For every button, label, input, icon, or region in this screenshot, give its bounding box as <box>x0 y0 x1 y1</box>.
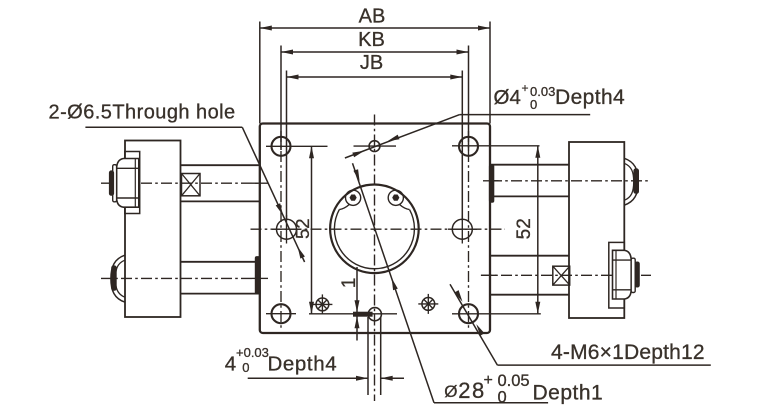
left bottom bolt head (behind block) <box>111 255 125 302</box>
plate body <box>260 124 490 334</box>
right hole column centerline <box>468 131 470 329</box>
left bottom bolt tip <box>112 266 117 290</box>
left bottom axis centerline <box>101 277 260 279</box>
svg-text:Ø4: Ø4 <box>494 86 521 109</box>
bottom row crosshair right with 52 tick <box>452 313 541 315</box>
left rod key block <box>182 174 201 196</box>
dimension AB extension lines <box>259 22 261 124</box>
dimension 4 line <box>248 377 368 379</box>
svg-text:4: 4 <box>225 353 236 376</box>
side through hole right <box>452 219 472 239</box>
svg-text:28: 28 <box>458 378 485 403</box>
dimension KB line <box>281 51 469 53</box>
dimension JB extension lines <box>286 71 288 221</box>
M6 port hole left <box>316 298 329 311</box>
central bore circle <box>330 185 419 274</box>
bottom row crosshair left <box>266 313 296 315</box>
left top piston rod <box>181 164 260 166</box>
right top axis centerline <box>491 180 648 182</box>
slot extension lines <box>367 317 369 395</box>
left top bolt hex nut <box>117 159 139 208</box>
svg-text:Depth4: Depth4 <box>268 353 338 376</box>
vertical centerline <box>374 115 376 402</box>
center row crosshair left hole <box>272 228 301 230</box>
dimension KB extension lines <box>280 46 282 151</box>
dimension JB line <box>287 76 463 78</box>
left top bolt washer <box>113 165 117 202</box>
right bottom piston rod <box>490 255 569 257</box>
horizontal centerline <box>251 228 506 230</box>
svg-text:0: 0 <box>242 360 249 375</box>
dimension AB line <box>260 27 490 29</box>
svg-text:KB: KB <box>358 29 385 51</box>
retaining ring lug left <box>346 190 361 205</box>
right bottom bolt washer <box>631 258 635 292</box>
retaining ring lug right <box>388 190 403 205</box>
leader Ø28 diagonal <box>353 163 435 402</box>
svg-text:Ø: Ø <box>444 382 457 401</box>
right top piston rod <box>490 164 569 166</box>
leader Ø4 underline <box>460 114 591 116</box>
retaining ring inner arc <box>334 210 414 269</box>
leader Ø4 diagonal <box>345 115 460 158</box>
svg-text:JB: JB <box>360 52 383 74</box>
left top axis centerline <box>101 182 260 184</box>
right top bolt head (behind block) <box>624 158 638 205</box>
ring lug hole left <box>350 195 357 201</box>
left bolt pocket strip <box>125 152 140 214</box>
leader Ø28 underline <box>434 402 548 404</box>
M6 port hole right <box>422 298 435 311</box>
svg-text:0: 0 <box>530 97 537 112</box>
bottom row line to slot <box>309 313 397 315</box>
svg-text:0.05: 0.05 <box>498 372 530 390</box>
left bottom rod end seal <box>255 257 259 294</box>
right top bolt tip <box>634 169 639 193</box>
left bottom piston rod <box>181 261 260 263</box>
leader 2-Ø6.5 diagonal <box>242 127 304 262</box>
right bottom axis centerline <box>481 274 651 276</box>
svg-text:4-M6×1Depth12: 4-M6×1Depth12 <box>551 341 705 364</box>
svg-text:+: + <box>522 81 529 95</box>
svg-text:+: + <box>484 372 493 389</box>
left top bolt tip <box>109 171 113 195</box>
dimension 1 upper line <box>356 267 358 312</box>
svg-text:52: 52 <box>292 218 313 239</box>
corner hole bottom-left <box>272 304 291 323</box>
svg-text:AB: AB <box>359 6 386 28</box>
right bolt pocket strip <box>609 242 625 308</box>
left hole column centerline <box>280 131 282 329</box>
right top rod end seal <box>489 165 493 203</box>
corner hole top-right <box>459 137 478 156</box>
corner hole bottom-right <box>459 304 478 323</box>
right rod key block <box>553 266 570 285</box>
dimension 52 right line <box>537 146 539 314</box>
leader 4-M6 diagonal <box>450 284 497 365</box>
top row crosshair left <box>266 145 328 147</box>
svg-text:Depth4: Depth4 <box>555 86 625 109</box>
recess edge bar <box>354 312 373 316</box>
bottom slot hole <box>368 308 381 321</box>
corner hole top-left <box>272 137 291 156</box>
leader 4-M6 underline <box>497 364 710 366</box>
top row crosshair right with 52 tick <box>452 145 540 147</box>
svg-text:+0.03: +0.03 <box>236 345 269 360</box>
center row crosshair right hole <box>448 228 477 230</box>
svg-text:Depth1: Depth1 <box>533 382 604 405</box>
svg-text:52: 52 <box>514 218 535 239</box>
top dowel hole <box>369 141 380 152</box>
ring lug hole right <box>392 195 399 201</box>
dimension 52 left line <box>311 146 313 313</box>
left cylinder block <box>125 141 181 318</box>
svg-text:2-Ø6.5Through hole: 2-Ø6.5Through hole <box>49 102 236 124</box>
svg-text:0: 0 <box>498 389 507 407</box>
right cylinder block <box>569 142 624 318</box>
leader 2-Ø6.5 underline <box>85 126 242 128</box>
svg-text:1: 1 <box>339 278 360 289</box>
side through hole left <box>277 219 297 239</box>
right bottom bolt tip <box>635 262 639 287</box>
dimension 1 lower line <box>356 316 358 340</box>
right bottom bolt hex nut <box>613 250 632 299</box>
